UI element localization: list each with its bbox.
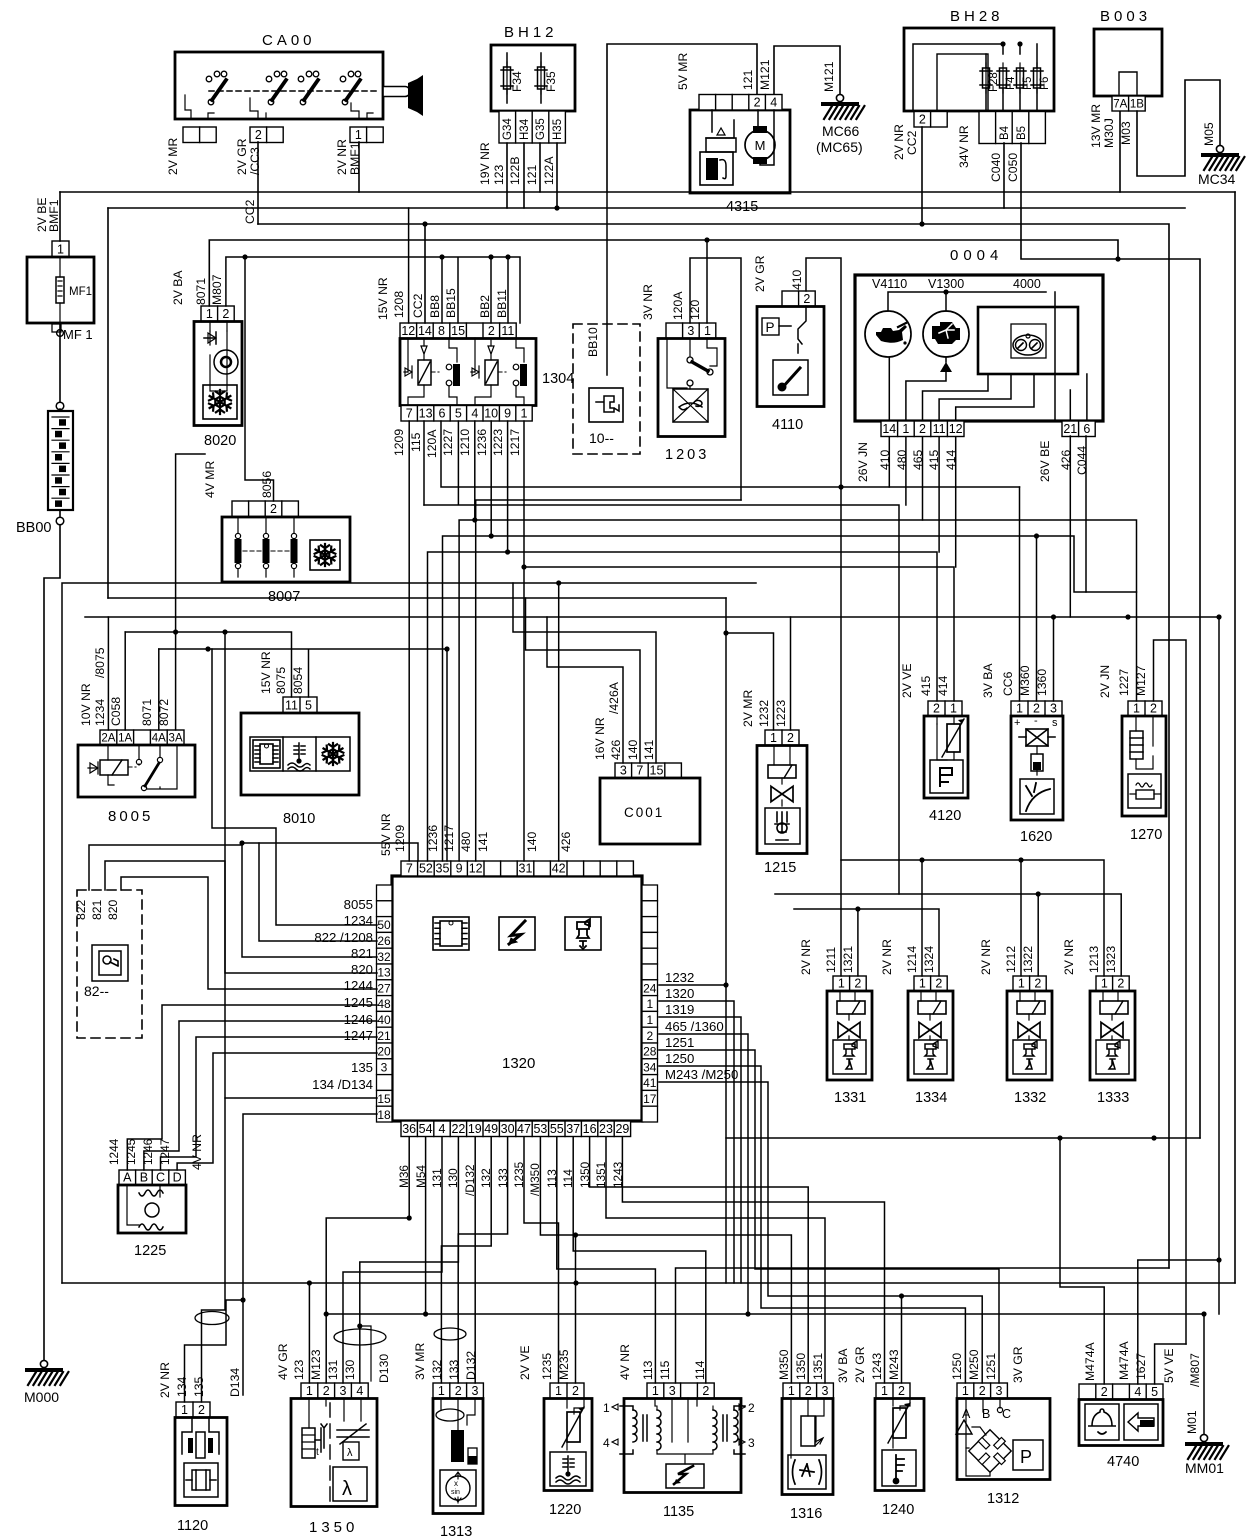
svg-text:15V NR: 15V NR	[376, 277, 390, 320]
svg-text:1223: 1223	[491, 429, 505, 456]
wire: 1270 risers	[1086, 436, 1186, 1344]
svg-text:24: 24	[643, 981, 657, 995]
svg-text:1245: 1245	[124, 1138, 138, 1165]
svg-text:2: 2	[933, 702, 940, 716]
wire: MF1 feed	[59, 192, 61, 241]
svg-text:1304: 1304	[542, 371, 574, 387]
svg-text:49: 49	[484, 1122, 498, 1136]
svg-text:5: 5	[455, 407, 462, 421]
svg-text:2: 2	[1150, 702, 1157, 716]
svg-text:B4: B4	[999, 125, 1011, 140]
svg-text:42: 42	[552, 862, 566, 876]
svg-text:1215: 1215	[764, 860, 796, 876]
svg-text:1217: 1217	[442, 825, 456, 852]
svg-text:1: 1	[646, 997, 653, 1011]
svg-text:2V NR: 2V NR	[892, 124, 906, 160]
svg-text:M03: M03	[1119, 121, 1133, 145]
shield ellipse 1350	[334, 1329, 386, 1345]
wire: ECU right 1320	[659, 1001, 734, 1283]
svg-text:821: 821	[351, 946, 373, 961]
svg-text:50: 50	[377, 918, 391, 932]
svg-text:113: 113	[641, 1360, 655, 1380]
wire: 1620 risers	[1020, 487, 1054, 701]
svg-text:6: 6	[1083, 422, 1090, 436]
svg-text:2V BA: 2V BA	[171, 270, 185, 305]
svg-text:48: 48	[377, 997, 391, 1011]
svg-text:F28: F28	[988, 72, 1000, 92]
wire: BB00 to ground M000	[44, 525, 60, 1360]
svg-text:M000: M000	[24, 1389, 59, 1405]
oil pressure switch 4110	[753, 255, 824, 406]
svg-text:5V VE: 5V VE	[1162, 1348, 1176, 1383]
svg-text:BB10: BB10	[586, 327, 600, 357]
svg-text:82--: 82--	[84, 983, 109, 999]
wire: ECU right 1232	[659, 984, 726, 986]
svg-text:1320: 1320	[665, 986, 694, 1001]
svg-text:1320: 1320	[502, 1055, 535, 1072]
svg-text:8005: 8005	[108, 808, 153, 825]
svg-text:1332: 1332	[1014, 1090, 1046, 1106]
svg-text:1236: 1236	[475, 429, 489, 456]
idle regulator 1215	[741, 690, 807, 854]
wire: ECU left row 821 + 82 riser	[105, 861, 377, 973]
coolant temp sensor 1220	[518, 1345, 592, 1490]
wire: rail y649	[159, 649, 447, 861]
svg-text:15: 15	[451, 324, 465, 338]
svg-text:821: 821	[90, 899, 104, 920]
svg-text:2: 2	[979, 1384, 986, 1398]
svg-text:4V NR: 4V NR	[190, 1134, 204, 1170]
svg-text:134 /D134: 134 /D134	[312, 1077, 373, 1092]
svg-text:P: P	[766, 320, 775, 335]
svg-text:4V NR: 4V NR	[618, 1344, 632, 1380]
svg-text:1120: 1120	[177, 1518, 208, 1534]
svg-text:M30J: M30J	[1102, 118, 1116, 148]
svg-text:BB00: BB00	[16, 520, 51, 536]
wire: bus y552	[428, 421, 938, 861]
svg-text:17: 17	[643, 1092, 657, 1106]
wire: BH28 pin2 CC2 drop	[921, 127, 923, 224]
wire: ECU left row 1246	[161, 1037, 378, 1170]
svg-text:13: 13	[419, 407, 433, 421]
svg-text:MF1: MF1	[69, 286, 92, 298]
connector CA00 pin 1	[350, 127, 383, 143]
svg-text:1334: 1334	[915, 1090, 947, 1106]
wire: MM01 riser	[1203, 1314, 1205, 1434]
wire: BH28 B5 to 8020 rail y240	[209, 143, 1200, 1138]
svg-text:1B: 1B	[1130, 99, 1144, 111]
wire: ECU right 465/1360	[659, 1034, 748, 1314]
svg-text:1: 1	[181, 1403, 188, 1417]
svg-text:2A: 2A	[101, 733, 115, 745]
svg-text:M474A: M474A	[1117, 1341, 1131, 1380]
svg-text:5: 5	[305, 699, 312, 713]
svg-text:11: 11	[285, 699, 298, 713]
svg-text:140: 140	[525, 831, 539, 852]
wire: 4740 pin2 feed	[1060, 1138, 1104, 1384]
svg-text:134: 134	[175, 1376, 189, 1397]
connector BH28 B4 B5	[979, 112, 1045, 144]
connector C001	[593, 681, 700, 844]
svg-text:55: 55	[550, 1122, 564, 1136]
battery BB00	[48, 323, 73, 525]
svg-text:3: 3	[620, 764, 627, 778]
svg-text:3: 3	[822, 1384, 829, 1398]
svg-text:2V GR: 2V GR	[853, 1346, 867, 1383]
wire: ECU left row 134 /D134	[243, 1114, 377, 1395]
svg-text:140: 140	[626, 739, 640, 760]
air temp sensor 1240	[870, 1349, 924, 1490]
svg-text:1: 1	[950, 702, 957, 716]
wire: bus y520	[459, 421, 1136, 861]
svg-text:1243: 1243	[870, 1353, 884, 1380]
wire: BH12 pin drops	[507, 143, 557, 208]
ground MC34 with wire M05	[1137, 80, 1220, 176]
svg-text:BB2: BB2	[478, 295, 492, 318]
wire: 1243 run to 1240 pin1	[622, 1137, 884, 1383]
svg-text:1331: 1331	[834, 1090, 866, 1106]
injector 1334	[880, 939, 953, 1080]
wire: ECU left row 820 + 82 riser	[121, 877, 377, 989]
svg-text:BMF1: BMF1	[47, 199, 61, 232]
svg-text:29: 29	[615, 1122, 629, 1136]
svg-text:13: 13	[377, 966, 391, 980]
svg-text:13V MR: 13V MR	[1089, 104, 1103, 148]
wire: ECU left row 822/1208	[242, 843, 377, 957]
svg-text:1217: 1217	[508, 429, 522, 456]
svg-text:1227: 1227	[441, 429, 455, 456]
svg-text:7: 7	[636, 764, 643, 778]
svg-text:1: 1	[1101, 977, 1108, 991]
svg-text:1: 1	[902, 422, 909, 436]
svg-text:6: 6	[439, 407, 446, 421]
svg-text:2: 2	[646, 1029, 653, 1043]
control unit 8010	[241, 651, 359, 795]
svg-text:1232: 1232	[665, 970, 694, 985]
svg-text:4: 4	[439, 1122, 446, 1136]
engine ECU 1320	[392, 876, 642, 1121]
svg-text:1: 1	[770, 731, 777, 745]
svg-text:2V GR: 2V GR	[235, 138, 249, 175]
svg-text:BMF1: BMF1	[348, 142, 362, 175]
wire: 8005-8010 rail y632	[125, 632, 291, 697]
svg-text:37: 37	[566, 1122, 580, 1136]
svg-text:1244: 1244	[107, 1138, 121, 1165]
svg-text:15: 15	[650, 764, 664, 778]
svg-text:23: 23	[599, 1122, 613, 1136]
compressor relay unit 8020	[171, 270, 242, 426]
svg-text:1: 1	[704, 324, 711, 338]
svg-text:2: 2	[919, 422, 926, 436]
svg-text:16: 16	[583, 1122, 597, 1136]
svg-text:CC6: CC6	[1001, 671, 1015, 696]
svg-text:1: 1	[603, 1401, 610, 1415]
svg-text:7A: 7A	[1113, 99, 1127, 111]
svg-text:1313: 1313	[440, 1524, 472, 1537]
svg-text:135: 135	[351, 1060, 373, 1075]
svg-text:426: 426	[609, 739, 623, 760]
svg-text:415: 415	[919, 675, 933, 696]
svg-text:53: 53	[533, 1122, 547, 1136]
wire: M235 drop 1220 pin2	[575, 1235, 577, 1383]
fuel pump icon	[700, 152, 733, 185]
wire: 133 run to 1313 pin2	[458, 1137, 507, 1383]
svg-text:1316: 1316	[790, 1506, 822, 1522]
svg-text:2: 2	[1117, 977, 1124, 991]
wire: ECU right 1319	[659, 1017, 741, 1283]
svg-text:8020: 8020	[204, 433, 236, 449]
oxygen sensor 1350	[276, 1343, 391, 1506]
svg-text:MF 1: MF 1	[63, 327, 93, 342]
svg-text:1351: 1351	[811, 1353, 825, 1380]
svg-text:27: 27	[377, 981, 391, 995]
svg-text:9: 9	[456, 862, 463, 876]
svg-text:1350: 1350	[309, 1519, 358, 1536]
svg-text:4315: 4315	[726, 199, 758, 215]
wire: tall frame x726	[725, 598, 727, 1283]
connector CA00 pins MR	[183, 127, 216, 143]
svg-text:14: 14	[882, 422, 896, 436]
svg-text:/M807: /M807	[1188, 1353, 1202, 1387]
injector 1333	[1062, 939, 1135, 1080]
svg-text:12: 12	[949, 422, 963, 436]
svg-text:2: 2	[222, 307, 229, 321]
svg-text:3V BA: 3V BA	[981, 663, 995, 698]
svg-text:465 /1360: 465 /1360	[665, 1019, 724, 1034]
svg-text:10--: 10--	[589, 430, 614, 446]
svg-text:2V NR: 2V NR	[880, 939, 894, 975]
svg-text:1319: 1319	[665, 1002, 694, 1017]
svg-text:G35: G35	[535, 118, 547, 140]
svg-text:1232: 1232	[757, 700, 771, 727]
svg-text:D130: D130	[377, 1354, 391, 1383]
svg-text:4740: 4740	[1107, 1454, 1139, 1470]
svg-text:M243 /M250: M243 /M250	[665, 1067, 738, 1082]
svg-text:1312: 1312	[987, 1491, 1019, 1507]
injector 1332	[979, 939, 1052, 1080]
connector 0004 pins 14 1 2 11 12	[881, 421, 964, 437]
connector BH28 pin 2	[914, 112, 947, 128]
wire: 0004 pin21 drop	[1069, 436, 1071, 617]
svg-text:F34: F34	[510, 71, 524, 92]
svg-text:C: C	[1002, 1407, 1011, 1421]
connector 1320 top pins	[401, 861, 633, 876]
wire: bottom rail y1314	[326, 1313, 1204, 1315]
svg-text:1213: 1213	[1087, 946, 1101, 973]
svg-text:31: 31	[519, 862, 533, 876]
wire: 4740 pin5 feed	[1155, 1344, 1186, 1384]
vehicle speed sensor 1313	[413, 1343, 483, 1514]
svg-text:1: 1	[555, 1384, 562, 1398]
pressure switch 10 (BB10)	[573, 192, 640, 454]
svg-text:C050: C050	[1006, 153, 1020, 182]
svg-text:130: 130	[343, 1359, 357, 1380]
wire: M243 drop 1240 pin2	[901, 1296, 903, 1383]
svg-text:M05: M05	[1202, 122, 1216, 146]
svg-text:1: 1	[881, 1384, 888, 1398]
svg-text:1250: 1250	[950, 1353, 964, 1380]
svg-text:1324: 1324	[922, 946, 936, 973]
svg-text:480: 480	[459, 831, 473, 852]
svg-text:8010: 8010	[283, 811, 315, 827]
wire: bus y598	[108, 597, 726, 599]
svg-text:F35: F35	[544, 71, 558, 92]
svg-text:2: 2	[1033, 702, 1040, 716]
svg-text:2V MR: 2V MR	[741, 690, 755, 727]
svg-text:34V NR: 34V NR	[957, 125, 971, 168]
svg-text:8075: 8075	[274, 667, 288, 694]
wire: ECU left row 135	[202, 1098, 378, 1402]
svg-text:19: 19	[468, 1122, 482, 1136]
fuel pump assembly 4315	[690, 95, 790, 194]
connector 0004 pins 21 6	[1062, 421, 1095, 437]
svg-text:2: 2	[898, 1384, 905, 1398]
svg-text:F4: F4	[1005, 76, 1017, 90]
svg-text:M: M	[755, 138, 766, 153]
svg-text:1225: 1225	[134, 1243, 166, 1259]
wire: bus y500	[476, 500, 741, 861]
svg-text:2V NR: 2V NR	[335, 139, 349, 175]
svg-text:1244: 1244	[344, 978, 373, 993]
svg-text:7: 7	[406, 407, 413, 421]
svg-text:1227: 1227	[1117, 669, 1131, 696]
svg-text:M121: M121	[758, 59, 772, 90]
svg-text:822 /1208: 822 /1208	[314, 930, 373, 945]
svg-text:122B: 122B	[508, 157, 522, 185]
svg-text:26V BE: 26V BE	[1038, 441, 1052, 482]
wire: bus y567	[524, 421, 954, 861]
svg-text:2V VE: 2V VE	[900, 663, 914, 698]
shield ellipse 1120 pair	[195, 1312, 229, 1325]
svg-text:3: 3	[669, 1384, 676, 1398]
wire: ECU left row 1245	[144, 1021, 377, 1170]
fuse MF1	[27, 197, 94, 323]
svg-text:16V NR: 16V NR	[593, 717, 607, 760]
svg-text:34: 34	[643, 1060, 657, 1074]
svg-text:1212: 1212	[1004, 946, 1018, 973]
svg-text:1240: 1240	[882, 1502, 914, 1518]
wire: ECU right 1251 to 1312 pin3	[659, 1050, 999, 1383]
wire: /D132 straight to 1313 pin3	[474, 1137, 476, 1383]
svg-text:B5: B5	[1016, 126, 1028, 140]
wire: bus y487	[441, 421, 1020, 487]
svg-text:120A: 120A	[671, 291, 685, 320]
svg-text:7: 7	[406, 862, 413, 876]
svg-text:/8075: /8075	[93, 647, 107, 678]
svg-text:s: s	[1052, 717, 1058, 729]
fuse F5	[1017, 68, 1024, 88]
wire: 1350 run to 1316 pin2	[590, 1137, 809, 1383]
svg-text:820: 820	[351, 962, 373, 977]
alarm unit 4740	[1079, 1341, 1202, 1446]
svg-text:F6: F6	[1039, 77, 1051, 90]
svg-text:1214: 1214	[905, 946, 919, 973]
svg-text:19V NR: 19V NR	[478, 142, 492, 185]
svg-text:BH28: BH28	[950, 8, 1004, 25]
wire: ECU right M243/M250	[659, 1082, 982, 1383]
svg-text:22: 22	[451, 1122, 465, 1136]
svg-text:1322: 1322	[1021, 946, 1035, 973]
svg-text:H35: H35	[552, 119, 564, 140]
svg-text:414: 414	[936, 675, 950, 696]
ignition coil 1135	[603, 1344, 755, 1493]
svg-text:5V MR: 5V MR	[676, 53, 690, 90]
wire: 132 run to 1313 pin1	[441, 1137, 491, 1383]
svg-text:/CC3: /CC3	[248, 147, 262, 175]
svg-text:8055: 8055	[344, 897, 373, 912]
svg-text:3: 3	[340, 1384, 347, 1398]
wire: CC2 from CA00 pin2	[257, 142, 259, 224]
node BMF 1	[52, 324, 61, 332]
svg-text:2: 2	[935, 977, 942, 991]
svg-text:1: 1	[1016, 702, 1023, 716]
svg-text:3A: 3A	[169, 733, 183, 745]
svg-text:4: 4	[1134, 1385, 1141, 1399]
svg-text:λ: λ	[347, 1447, 353, 1459]
svg-text:CC2: CC2	[243, 199, 257, 224]
svg-text:H34: H34	[519, 118, 531, 140]
wire: 1304 coil rail y257	[226, 257, 520, 501]
immobiliser 82	[74, 890, 142, 1038]
svg-text:18: 18	[377, 1108, 391, 1122]
svg-text:30: 30	[501, 1122, 515, 1136]
wire: injector rail 1	[841, 860, 1104, 976]
svg-text:M243: M243	[887, 1349, 901, 1380]
throttle potentiometer 1225	[107, 1134, 204, 1233]
svg-text:1321: 1321	[841, 946, 855, 973]
svg-text:2: 2	[805, 1384, 812, 1398]
svg-text:D134: D134	[228, 1368, 242, 1397]
fuse box BH12	[491, 24, 575, 111]
svg-text:4V GR: 4V GR	[276, 1343, 290, 1380]
svg-text:4120: 4120	[929, 808, 961, 824]
svg-text:2: 2	[702, 1384, 709, 1398]
svg-text:8056: 8056	[260, 471, 274, 498]
wire: ECU pin42 drop	[558, 583, 560, 861]
connector CA00 pin 2	[250, 127, 283, 143]
wire: 1208 riser 1304 pin12	[408, 208, 410, 323]
svg-text:C: C	[156, 1171, 165, 1185]
svg-text:sin: sin	[451, 1489, 460, 1496]
svg-text:3V BA: 3V BA	[836, 1348, 850, 1383]
svg-text:4A: 4A	[152, 733, 166, 745]
svg-text:2: 2	[1034, 977, 1041, 991]
svg-text:410: 410	[878, 449, 892, 470]
ground MC66 (MC65) with wire M121	[774, 46, 840, 95]
svg-text:11: 11	[501, 324, 514, 338]
svg-text:2V NR: 2V NR	[979, 939, 993, 975]
svg-text:40: 40	[377, 1013, 391, 1027]
svg-text:x: x	[454, 1479, 458, 1488]
svg-text:1270: 1270	[1130, 827, 1162, 843]
wire: bus y617	[85, 617, 1219, 1314]
svg-text:820: 820	[106, 899, 120, 920]
svg-text:114: 114	[693, 1360, 707, 1380]
diagnostic socket 1203	[641, 284, 725, 437]
svg-text:3: 3	[687, 324, 694, 338]
wire: BH28 B4 drop	[1003, 143, 1005, 208]
wire: 1350 pin1 123	[308, 1283, 310, 1383]
injector 1331	[799, 939, 872, 1080]
svg-text:4V MR: 4V MR	[203, 461, 217, 498]
svg-text:3: 3	[1050, 702, 1057, 716]
svg-text:2V NR: 2V NR	[158, 1362, 172, 1398]
wire: right edge drop x1235	[1234, 192, 1236, 1283]
svg-text:C040: C040	[989, 153, 1003, 182]
wire: left riser x108	[107, 208, 109, 598]
svg-text:D: D	[173, 1171, 182, 1185]
wire: 8005 risers	[108, 454, 205, 730]
